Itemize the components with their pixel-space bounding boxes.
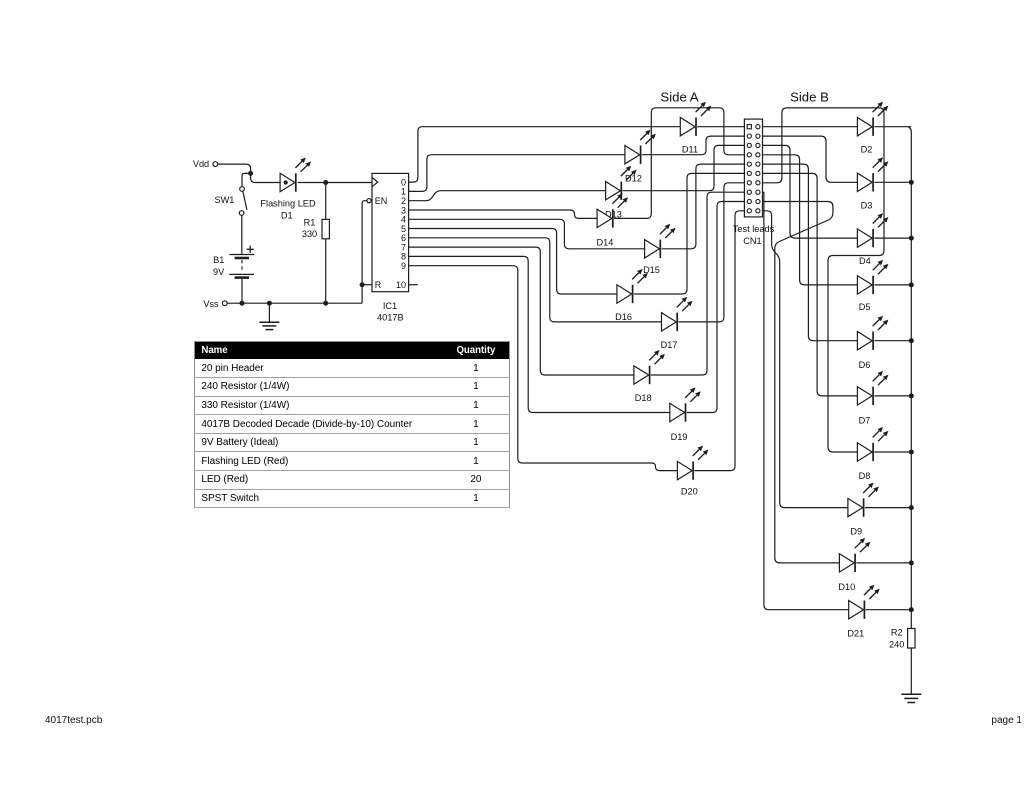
svg-text:240: 240 [889,640,904,650]
CN1 pin 1 pad square [747,125,751,129]
CN1 pin 17 pad [747,199,751,203]
switch SW1 [239,187,247,216]
svg-text:page 1: page 1 [991,715,1022,726]
LED D5 [857,260,888,294]
wire D9 cathode to bus [865,507,911,509]
junction Vdd branch [248,171,253,176]
CN1 pin 18 pad [756,199,760,203]
svg-text:D16: D16 [615,312,632,322]
wire CN1 row 5 to side B [763,164,858,341]
wire pin 10 stub [409,284,418,286]
wire D20 cathode to CN1 [694,211,744,471]
wire pin 3 to D14 anode [409,210,597,218]
wire D4 cathode to bus [874,237,911,239]
wire SW1 to battery [241,215,243,254]
svg-text:4017test.pcb: 4017test.pcb [45,715,103,726]
CN1 pin 16 pad [756,190,760,194]
svg-text:D11: D11 [682,145,698,155]
svg-text:D21: D21 [847,628,864,638]
wire D13 cathode to CN1 [623,145,745,190]
wire pin 2 to D13 anode [409,191,606,201]
LED D7 [857,371,888,405]
wire D16 cathode to CN1 [634,173,745,294]
wire R2 to ground [910,648,912,694]
wire CN1 row 10 to side B [763,211,848,508]
junction bus D10 [909,560,914,565]
svg-text:Side A: Side A [660,89,698,104]
CN1 pin 5 pad [747,143,751,147]
junction bus D21 [909,607,914,612]
wire D3 cathode to bus [874,181,911,183]
wire D7 cathode to bus [874,395,911,397]
wire battery to Vss [241,279,243,303]
svg-text:R2: R2 [891,628,903,638]
wire D5 cathode to bus [874,284,911,286]
CN1 pin 10 pad [756,162,760,166]
svg-text:Vdd: Vdd [193,159,209,169]
svg-text:330: 330 [302,229,317,239]
svg-text:D18: D18 [635,393,652,403]
wire CN1 row 6 to side B [763,173,858,396]
junction bus D5 [909,282,914,287]
wire D2 cathode to bus [874,126,911,128]
junction bus D7 [909,393,914,398]
EN bubble [367,199,371,203]
svg-text:D3: D3 [861,200,873,210]
ground main [259,322,279,329]
CN1 pin 8 pad [756,153,760,157]
svg-text:4017B: 4017B [377,313,404,323]
LED D13 [606,166,637,200]
CN1 pin 6 pad [756,143,760,147]
LED D4 [857,213,888,247]
LED D8 [857,427,888,461]
LED D17 [662,297,693,331]
svg-text:IC1: IC1 [383,301,397,311]
ground side B [901,694,921,702]
LED D12 [625,130,656,164]
resistor R1 [322,219,329,238]
CN1 pin 15 pad [747,190,751,194]
svg-text:D8: D8 [859,471,871,481]
svg-text:Flashing LED: Flashing LED [260,199,316,209]
svg-text:SW1: SW1 [214,195,234,205]
CN1 pin 20 pad [756,209,760,213]
wire CN1 row 8 to side B [763,192,849,610]
CN1 pin 13 pad [747,181,751,185]
wire D17 cathode to CN1 [679,183,745,322]
wire R net to Vss [361,285,363,304]
wire D21 cathode to bus [866,609,912,611]
junction Vss ground tap [267,301,272,306]
wire R1 to Vss [325,239,327,303]
wire pin 5 to D16 anode [409,229,617,295]
svg-text:Test leads: Test leads [733,224,775,234]
svg-text:D7: D7 [859,415,871,425]
terminal Vdd [213,162,218,167]
connector CN1 20 pin header body [744,119,762,217]
wire pin 7 to D18 anode [409,247,634,375]
CN1 pin 14 pad [756,181,760,185]
svg-text:10: 10 [396,280,406,290]
svg-text:D10: D10 [838,582,855,592]
wire Vss rail [227,302,362,304]
junction D1 node [323,180,328,185]
wire CN1 row 2 to side B [763,136,858,182]
svg-text:D20: D20 [681,487,698,497]
wire D1 cathode to IC clock [298,182,372,184]
svg-text:D14: D14 [596,238,613,248]
IC1 clock input chevron [372,178,378,187]
LED D6 [857,316,888,350]
CN1 pin 2 pad [756,125,760,129]
svg-text:EN: EN [375,196,388,206]
battery B1 [229,246,254,278]
wire pin 6 to D17 anode [409,238,662,322]
CN1 pin 3 pad [747,134,751,138]
wire ground stem [268,303,270,322]
wire D8 cathode to bus [874,451,911,453]
LED D16 [617,269,648,303]
terminal Vss [222,301,227,306]
LED D19 [670,388,701,422]
wire D19 cathode to CN1 [687,202,745,413]
wire CN1 row 4 to side B [763,155,858,285]
wire Vdd to switch junction [218,164,251,173]
wire pin 8 to D19 anode [409,256,670,412]
svg-text:B1: B1 [213,255,224,265]
CN1 pin 11 pad [747,171,751,175]
junction bus D4 [909,236,914,241]
svg-text:Side B: Side B [790,89,829,104]
LED D20 [677,446,708,480]
svg-text:R: R [375,280,382,290]
LED D15 [645,224,676,258]
wire D14 cathode to CN1 [614,108,744,219]
junction bus D6 [909,338,914,343]
counter IC1 4017B body [372,173,409,291]
junction R net [360,282,365,287]
svg-text:D19: D19 [671,432,688,442]
svg-text:D17: D17 [661,340,678,350]
svg-text:D5: D5 [859,302,871,312]
CN1 pin 19 pad [747,209,751,213]
svg-text:D1: D1 [281,211,293,221]
wire D10 cathode to bus [856,562,911,564]
wire CN1 row 3 to side B [763,145,858,238]
CN1 pin 7 pad [747,153,751,157]
wire CN1 row 9 to side B [763,202,840,563]
wire D12 cathode to CN1 [642,136,745,155]
LED D21 [849,585,880,619]
svg-text:9V: 9V [213,267,225,277]
LED D14 [597,193,628,227]
junction Vss battery [240,301,245,306]
wire EN to R net [362,201,367,285]
wire pin 1 to D12 anode [409,155,625,192]
wire junction to D1 anode [251,173,281,182]
wire side B cathode bus [908,127,911,629]
BOM table [194,341,510,508]
junction Vss R1 tap [323,301,328,306]
wire D18 cathode to CN1 [651,192,745,375]
LED D11 [680,102,711,136]
wire D15 cathode to CN1 [662,164,745,249]
CN1 pin 9 pad [747,162,751,166]
junction bus D8 [909,450,914,455]
svg-text:Vss: Vss [203,299,219,309]
LED D10 [839,538,870,572]
wire junction to SW1 [242,173,251,186]
junction bus D3 [909,180,914,185]
wire pin 9 to D20 anode [409,266,678,471]
wire R pin [362,284,372,286]
svg-text:D4: D4 [859,256,871,266]
wire D6 cathode to bus [874,340,911,342]
wire pin 4 to D15 anode [409,219,645,249]
wire CN1 row 1 to side B [763,126,858,128]
LED D2 [857,102,888,136]
LED D9 [848,483,879,517]
CN1 pin 4 pad [756,134,760,138]
svg-text:D9: D9 [850,526,862,536]
LED D3 [857,157,888,191]
svg-text:D2: D2 [861,145,873,155]
svg-text:R1: R1 [304,218,316,228]
svg-text:9: 9 [401,261,406,271]
svg-text:CN1: CN1 [743,236,761,246]
CN1 pin 12 pad [756,171,760,175]
wire node to R1 [325,183,327,220]
LED D1 [280,158,311,192]
wire pin 0 to D11 anode [409,127,681,182]
junction bus D9 [909,505,914,510]
svg-text:D6: D6 [859,360,871,370]
svg-text:D15: D15 [643,265,660,275]
wire CN1 row 7 to side B [763,108,885,452]
resistor R2 [908,629,915,649]
LED D18 [634,350,665,384]
wire D11 cathode to CN1 [697,126,744,128]
